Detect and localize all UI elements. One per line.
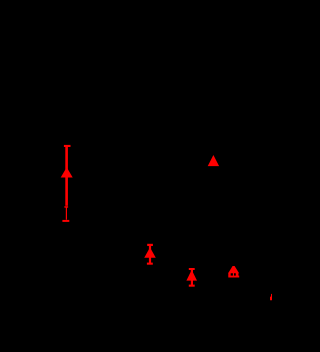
data point 3: lower error-bar cap [147,263,153,265]
data point 5: error-bar line stub [233,273,234,276]
data point 4: lower error-bar cap [189,285,195,287]
data point 1: thick error-bar line [65,146,68,206]
data point 3: upper error-bar cap [147,244,153,246]
data point 5: left flank stem [228,273,230,276]
data point 1: triangle marker [61,167,73,177]
data point 1: inner small cap [64,206,68,208]
data point 1: thin error-bar line [66,207,67,220]
data point 1: upper error-bar cap [64,145,71,147]
data point 4: triangle marker [186,270,197,281]
data point 4: upper error-bar cap [189,268,195,270]
data point 2: triangle marker [208,155,219,166]
data point 1: lower error-bar cap [62,220,69,222]
data point 4: error-bar line [191,269,193,286]
data point 5: lower error-bar cap (wide) [228,276,239,278]
data point 3: triangle marker [144,247,156,257]
data point 6: triangle marker clipped at right edge [270,294,272,301]
data point 3: error-bar line [149,245,151,264]
data point 5: right flank stem [236,273,239,276]
data point 5: triangle marker (squat, flat apex) [228,266,239,273]
